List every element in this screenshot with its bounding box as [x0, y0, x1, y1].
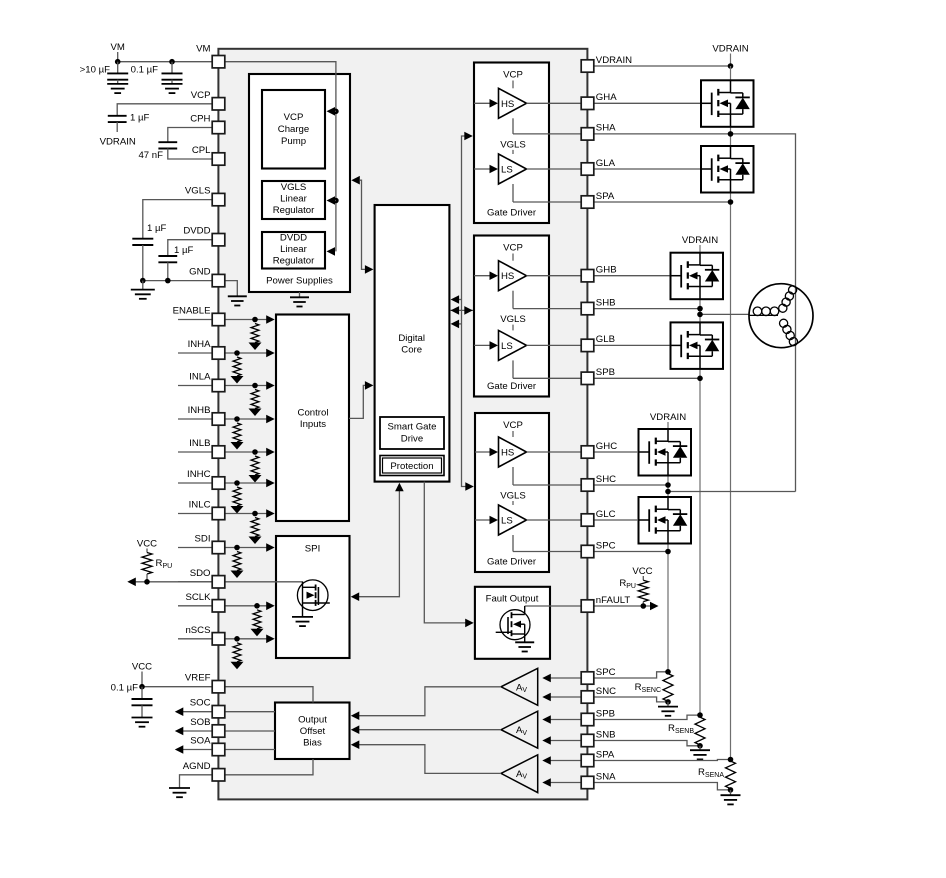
svg-text:SDO: SDO: [190, 568, 211, 579]
buffer HS (driver A): [499, 88, 527, 118]
svg-text:SHB: SHB: [596, 297, 616, 308]
arrow bus to Digital Core lower: [451, 320, 462, 329]
pin GLA: [581, 158, 615, 175]
junction GND cap6: [165, 278, 171, 284]
pin GLB: [581, 334, 615, 351]
transistor Q4 low-side B (external MOSFET with body diode): [671, 322, 724, 369]
pin SCLK: [185, 592, 224, 612]
wire SPB to FET: [594, 377, 700, 379]
pulldown resistor on INHA: [231, 350, 244, 383]
pin INLC: [189, 500, 225, 520]
pin SDI: [195, 534, 225, 554]
svg-text:VGLS: VGLS: [500, 491, 526, 502]
buffer LS (driver A): [499, 154, 527, 184]
junction RSENB bottom: [697, 743, 703, 749]
op-amp AV2 (current sense amplifier): [501, 711, 538, 748]
wire INHA to block: [225, 349, 275, 358]
wire source sense: [513, 201, 581, 203]
svg-text:Protection: Protection: [390, 461, 433, 472]
svg-text:VCP: VCP: [503, 420, 523, 431]
wire INLA external stub: [178, 385, 212, 387]
pin SPC: [581, 540, 615, 557]
arrow input- AV2: [542, 736, 581, 745]
svg-text:SNC: SNC: [596, 686, 616, 697]
ground (RSENC): [658, 702, 678, 716]
svg-text:RSENA: RSENA: [698, 767, 724, 779]
wire GND external rail: [143, 280, 212, 282]
arrow into LS (driver B): [474, 341, 498, 350]
svg-text:Fault Output: Fault Output: [486, 594, 539, 605]
wire SDI to block: [225, 543, 275, 552]
wire INLC external stub: [178, 513, 212, 515]
wire gate output: [527, 519, 582, 521]
pin SHB: [581, 297, 615, 314]
svg-text:SHC: SHC: [596, 474, 616, 485]
svg-text:Control: Control: [298, 407, 329, 418]
wire SOB output with arrow: [175, 727, 275, 736]
svg-text:Core: Core: [401, 345, 422, 356]
pin VCP: [191, 90, 225, 110]
wire SPB sense: [594, 715, 700, 719]
block Output Offset Bias: [275, 703, 350, 760]
wire SDO external stub: [178, 581, 212, 583]
wire AV2 output to Output Offset Bias: [351, 725, 501, 734]
block Fault Output: [475, 587, 550, 659]
svg-text:SPI: SPI: [305, 544, 320, 555]
double arrow Digital Core - Gate Driver B: [451, 306, 473, 315]
pin INHC: [187, 469, 225, 489]
pin VDRAIN: [581, 55, 632, 72]
pin AGND: [183, 761, 225, 781]
svg-text:INLC: INLC: [189, 500, 211, 511]
wire INHA external stub: [178, 352, 212, 354]
svg-text:VREF: VREF: [185, 673, 211, 684]
svg-text:SOC: SOC: [190, 698, 211, 709]
block Gate Driver A: [474, 63, 549, 224]
transistor Q5 high-side C (external MOSFET with body diode): [639, 429, 692, 476]
pulldown resistor on INLB: [249, 449, 262, 482]
pin SHA: [581, 123, 616, 140]
svg-text:AGND: AGND: [183, 761, 211, 772]
block Control Inputs: [276, 315, 349, 522]
ground (GND pin): [228, 295, 247, 297]
wire VM internal rail: [225, 62, 336, 252]
wire phase C drain column: [667, 429, 669, 672]
node VCC (SDO pull-up): [137, 539, 157, 553]
pin INLA: [189, 372, 225, 392]
wire AGND external: [180, 775, 213, 788]
junction RSENC bottom: [665, 699, 671, 705]
svg-text:VGLS: VGLS: [500, 139, 526, 150]
transistor Fault Output open-drain FET: [496, 606, 530, 642]
transistor Q3 high-side B (external MOSFET with body diode): [671, 253, 724, 300]
svg-text:VDRAIN: VDRAIN: [712, 44, 748, 55]
ground (SPI FET): [292, 616, 313, 618]
pin nSCS: [185, 625, 224, 645]
VGLS supply label and stub (driver A): [500, 139, 526, 154]
ground (Fault Output FET): [515, 641, 534, 643]
wire INLB external stub: [178, 451, 212, 453]
junction VREF cap: [139, 684, 145, 690]
svg-text:ENABLE: ENABLE: [173, 306, 211, 317]
block Gate Driver C: [475, 413, 549, 572]
pin SOA: [190, 736, 225, 756]
svg-text:SOA: SOA: [190, 736, 211, 747]
capacitor C7 0.1 uF: [111, 683, 153, 718]
wire SCLK external stub: [178, 605, 212, 607]
svg-text:VCP: VCP: [503, 70, 523, 81]
ground: [162, 83, 183, 85]
pin SPA: [581, 749, 615, 766]
wire VCP external: [117, 104, 212, 116]
wire ENABLE external stub: [178, 319, 212, 321]
pulldown resistor on SCLK: [251, 603, 264, 636]
wire VGLS external: [143, 200, 212, 239]
junction RSENA bottom: [728, 787, 734, 793]
svg-text:Output: Output: [298, 715, 327, 726]
arrow VM to VGLS regulator: [327, 196, 339, 205]
svg-text:Linear: Linear: [280, 194, 307, 205]
pin GLC: [581, 509, 615, 526]
ground (AGND): [169, 787, 190, 789]
wire AV1 output to Output Offset Bias: [351, 687, 501, 720]
wire SPA sense: [594, 760, 731, 761]
wire HS source return (driver C): [512, 467, 514, 485]
svg-text:Digital: Digital: [398, 333, 425, 344]
wire LS source return (driver B): [512, 360, 514, 378]
svg-text:SPA: SPA: [596, 191, 615, 202]
wire CPL external: [168, 149, 212, 160]
arrow into LS (driver A): [474, 165, 498, 174]
svg-text:RPU: RPU: [156, 558, 173, 570]
pin VM: [196, 44, 225, 68]
pulldown resistor on SDI: [231, 545, 244, 578]
arrow bus to Gate Driver A: [464, 132, 473, 141]
buffer HS (driver C): [499, 437, 527, 467]
pin INLB: [189, 438, 225, 458]
wire VDRAIN rail to phase A: [594, 65, 731, 67]
wire SNA sense: [594, 783, 731, 790]
wire AV3 output to Output Offset Bias: [351, 740, 501, 773]
ground (RSENB): [690, 746, 710, 760]
pin SNC: [581, 686, 616, 703]
transistor Q2 low-side A (external MOSFET with body diode): [701, 146, 754, 193]
wire SPA to FET: [594, 201, 731, 203]
pin DVDD: [183, 226, 224, 246]
junction SHA: [728, 131, 734, 137]
svg-text:RPU: RPU: [619, 578, 636, 590]
wire SCLK to block: [225, 602, 275, 611]
node VCC (VREF): [132, 662, 152, 687]
wire GND internal: [225, 281, 237, 297]
svg-text:1 µF: 1 µF: [147, 223, 167, 234]
svg-text:VM: VM: [111, 42, 125, 53]
pulldown resistor on ENABLE: [249, 317, 262, 350]
svg-text:nFAULT: nFAULT: [596, 595, 631, 606]
wire SPC sense: [594, 672, 668, 678]
ground: [132, 717, 153, 719]
wire SDO internal: [225, 582, 303, 584]
pin INHB: [188, 405, 225, 425]
svg-text:VCP: VCP: [191, 90, 211, 101]
wire phase B drain column: [699, 253, 701, 715]
buffer LS (driver B): [499, 330, 527, 360]
pin SPB: [581, 367, 615, 384]
ground: [107, 83, 128, 85]
svg-text:Gate Driver: Gate Driver: [487, 557, 537, 568]
pin SPA: [581, 191, 615, 208]
svg-text:HS: HS: [501, 99, 514, 110]
arrow input- AV1: [542, 693, 581, 702]
arrow input+ AV1: [542, 674, 581, 683]
wire SHB to FET: [594, 308, 700, 310]
arrow VM to VCP charge pump: [327, 107, 339, 116]
pin ENABLE: [173, 306, 225, 326]
wire VREF external: [142, 686, 212, 688]
svg-text:Power Supplies: Power Supplies: [266, 276, 333, 287]
wire HS source return (driver A): [512, 118, 514, 134]
resistor RSENA: [698, 761, 736, 789]
svg-text:47 nF: 47 nF: [138, 150, 163, 161]
junction phase B: [697, 312, 703, 318]
wire INLA to block: [225, 381, 275, 390]
link Protection - Fault Output: [424, 482, 473, 628]
svg-text:0.1 µF: 0.1 µF: [111, 683, 139, 694]
pulldown resistor on INHC: [231, 480, 244, 513]
resistor RPU (nFAULT): [619, 578, 648, 606]
wire SOC output with arrow: [175, 707, 275, 716]
svg-text:CPH: CPH: [190, 114, 210, 125]
pin SPC: [581, 667, 615, 684]
svg-text:SCLK: SCLK: [185, 592, 211, 603]
svg-text:VCC: VCC: [632, 566, 652, 577]
wire gate output: [527, 344, 582, 346]
junction VM cap1: [115, 59, 121, 65]
arrow bus to Digital Core upper: [451, 295, 462, 304]
wire source sense: [513, 484, 581, 486]
svg-text:INHC: INHC: [187, 469, 211, 480]
wire gate output: [527, 102, 582, 104]
junction SPC: [665, 549, 671, 555]
arrow input- AV3: [542, 778, 581, 787]
VCP supply label and stub (driver A): [503, 70, 523, 89]
block DVDD Linear Regulator: [262, 232, 325, 269]
svg-text:SDI: SDI: [195, 534, 211, 545]
svg-text:VDRAIN: VDRAIN: [650, 412, 686, 423]
arrow input+ AV2: [542, 715, 581, 724]
wire source sense: [513, 133, 581, 135]
wire ENABLE to block: [225, 315, 275, 324]
pulldown resistor on nSCS: [231, 636, 244, 669]
svg-text:VCC: VCC: [137, 539, 157, 550]
svg-text:GLC: GLC: [596, 509, 616, 520]
junction SHC: [665, 482, 671, 488]
svg-text:GHA: GHA: [596, 92, 617, 103]
pin INHA: [188, 339, 225, 359]
wire source sense: [513, 377, 581, 379]
svg-text:SPC: SPC: [596, 667, 616, 678]
block Power Supplies: [249, 74, 350, 292]
wire phase B to motor: [700, 313, 749, 315]
svg-text:LS: LS: [501, 165, 513, 176]
svg-text:VDRAIN: VDRAIN: [682, 235, 718, 246]
resistor RSENC: [635, 674, 673, 702]
wire nSCS to block: [225, 635, 275, 644]
wire SPC to FET: [594, 551, 668, 553]
pin VREF: [185, 673, 225, 693]
op-amp AV3 (current sense amplifier): [501, 755, 538, 793]
wire GHB to FET: [594, 275, 671, 277]
arrow VM to DVDD regulator: [327, 247, 336, 256]
node VDRAIN (phase B): [682, 235, 718, 253]
wire source sense: [513, 308, 581, 310]
node VDRAIN (phase A): [712, 44, 748, 69]
svg-text:DVDD: DVDD: [183, 226, 210, 237]
svg-text:SNA: SNA: [596, 771, 616, 782]
pin SNA: [581, 771, 616, 788]
wire HS source return (driver B): [512, 291, 514, 309]
junction RSENC top: [665, 669, 671, 675]
svg-text:VDRAIN: VDRAIN: [100, 137, 136, 148]
pin CPL: [192, 145, 225, 165]
VCP supply label and stub (driver C): [503, 420, 523, 437]
wire VM supply rail: [118, 61, 212, 63]
ground (RSENA): [721, 790, 741, 805]
junction VM cap2: [169, 59, 175, 65]
svg-text:1 µF: 1 µF: [174, 245, 194, 256]
pin GHB: [581, 265, 616, 282]
svg-text:Smart Gate: Smart Gate: [387, 422, 436, 433]
pin SPB: [581, 708, 615, 725]
wire VREF internal: [225, 687, 313, 703]
svg-text:GLB: GLB: [596, 334, 615, 345]
svg-text:1 µF: 1 µF: [130, 113, 150, 124]
wire DVDD external: [168, 240, 212, 256]
wire GHC to FET: [594, 451, 637, 453]
link Control Inputs - Digital Core: [349, 381, 373, 418]
svg-text:0.1 µF: 0.1 µF: [131, 65, 159, 76]
junction SHB: [697, 306, 703, 312]
op-amp AV1 (current sense amplifier): [501, 668, 538, 705]
svg-text:VGLS: VGLS: [185, 186, 211, 197]
svg-text:Regulator: Regulator: [273, 256, 315, 267]
svg-text:Gate Driver: Gate Driver: [487, 208, 537, 219]
wire gate output: [527, 168, 582, 170]
block Digital Core: [375, 205, 450, 482]
wire source sense: [513, 551, 581, 553]
wire SNB sense: [594, 741, 700, 746]
svg-text:VGLS: VGLS: [500, 314, 526, 325]
block Protection: [380, 456, 444, 476]
wire GLB to FET: [594, 344, 671, 346]
pin SNB: [581, 729, 615, 746]
svg-text:SPC: SPC: [596, 540, 616, 551]
VGLS supply label and stub (driver B): [500, 314, 526, 330]
svg-text:GHC: GHC: [596, 441, 617, 452]
junction SPB: [697, 376, 703, 382]
capacitor C5 1 uF: [132, 223, 166, 281]
wire LS source return (driver A): [512, 184, 514, 202]
svg-text:INLB: INLB: [189, 438, 210, 449]
wire nFAULT external with arrow: [594, 602, 659, 611]
motor (3-phase BLDC): [749, 284, 813, 348]
wire AGND internal: [225, 759, 313, 775]
junction phase C: [665, 489, 671, 495]
pulldown resistor on INHB: [231, 416, 244, 449]
wire nFAULT internal: [525, 605, 581, 607]
wire INHB external stub: [178, 418, 212, 420]
pin VGLS: [185, 186, 225, 206]
pin SDO: [190, 568, 225, 588]
junction RSENB top: [697, 712, 703, 718]
svg-text:HS: HS: [501, 271, 514, 282]
VCP supply label and stub (driver B): [503, 243, 523, 261]
wire SHC to FET: [594, 484, 668, 486]
svg-text:GHB: GHB: [596, 265, 617, 276]
svg-text:HS: HS: [501, 448, 514, 459]
pin nFAULT: [581, 595, 630, 612]
arrow bus to Gate Driver C: [465, 482, 474, 491]
svg-text:CPL: CPL: [192, 145, 211, 156]
arrow into HS (driver B): [474, 271, 498, 280]
wire INHC external stub: [178, 482, 212, 484]
wire GHA to FET: [594, 102, 701, 104]
svg-text:SHA: SHA: [596, 123, 616, 134]
wire CPH external: [168, 128, 212, 143]
svg-text:Regulator: Regulator: [273, 205, 315, 216]
svg-text:INHA: INHA: [188, 339, 212, 350]
wire INLB to block: [225, 448, 275, 457]
svg-text:Offset: Offset: [300, 726, 326, 737]
node VM supply: [111, 42, 125, 62]
transistor Q1 high-side A (external MOSFET with body diode): [701, 80, 754, 127]
block Smart Gate Drive: [380, 417, 444, 449]
svg-text:GLA: GLA: [596, 158, 616, 169]
buffer LS (driver C): [499, 505, 527, 535]
node VDRAIN (phase C): [650, 412, 686, 429]
wire INLC to block: [225, 509, 275, 518]
wire GLC to FET: [594, 519, 637, 521]
svg-text:Linear: Linear: [280, 244, 307, 255]
wire nSCS external stub: [178, 638, 212, 640]
block SPI: [276, 536, 350, 658]
svg-text:Bias: Bias: [303, 738, 322, 749]
pin SOC: [190, 698, 225, 718]
svg-text:VCP: VCP: [284, 112, 304, 123]
wire GLA to FET: [594, 168, 701, 170]
wire phase C to motor: [668, 491, 796, 493]
svg-text:VGLS: VGLS: [281, 182, 307, 193]
svg-text:SPB: SPB: [596, 708, 615, 719]
pulldown resistor on INLC: [249, 511, 262, 544]
svg-text:SNB: SNB: [596, 729, 616, 740]
svg-text:SPA: SPA: [596, 749, 615, 760]
wire SHA to phase node: [594, 134, 796, 492]
wire phase A drain column: [730, 66, 732, 760]
block Gate Driver B: [474, 236, 549, 397]
link Power Supplies - Digital Core: [351, 176, 373, 274]
svg-text:Pump: Pump: [281, 136, 306, 147]
svg-text:SOB: SOB: [190, 717, 210, 728]
svg-text:Gate Driver: Gate Driver: [487, 381, 537, 392]
svg-text:>10 µF: >10 µF: [80, 65, 110, 76]
capacitor C2 0.1 uF: [131, 62, 183, 84]
svg-text:Charge: Charge: [278, 124, 309, 135]
svg-text:VCP: VCP: [503, 243, 523, 254]
svg-text:INHB: INHB: [188, 405, 211, 416]
junction GND cap5: [140, 278, 146, 284]
arrow into LS (driver C): [475, 516, 498, 525]
